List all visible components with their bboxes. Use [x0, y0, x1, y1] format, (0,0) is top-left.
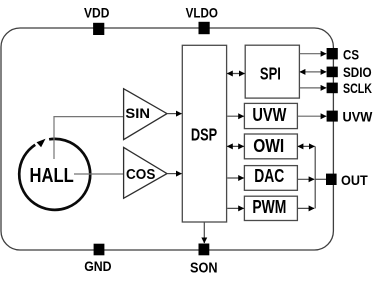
block PWM — [244, 196, 297, 220]
svg-text:SPI: SPI — [260, 64, 281, 84]
pin CS — [327, 48, 338, 59]
pin UVW — [327, 111, 338, 122]
block DAC — [244, 166, 297, 191]
bus vertical wire — [314, 146, 316, 208]
block UVW — [244, 103, 297, 128]
wire DSP-UVW — [227, 115, 244, 117]
pin OUT — [326, 174, 337, 185]
svg-text:VLDO: VLDO — [186, 5, 218, 21]
svg-text:OWI: OWI — [253, 136, 284, 156]
wire DSP to SON pin — [203, 222, 205, 243]
svg-text:SDIO: SDIO — [343, 64, 372, 80]
wire DSP-OWI (bidirectional) — [227, 145, 244, 147]
pin VLDO — [199, 22, 210, 34]
svg-text:SCLK: SCLK — [343, 80, 372, 96]
block SPI — [245, 45, 299, 98]
pin SON — [199, 244, 210, 256]
svg-text:PWM: PWM — [252, 197, 286, 217]
block DSP — [182, 45, 226, 222]
svg-text:HALL: HALL — [30, 164, 74, 187]
wire bus to OUT pin — [315, 178, 327, 180]
wire DAC to bus — [298, 178, 314, 180]
svg-text:DAC: DAC — [254, 166, 284, 186]
wire DSP-SPI (bidirectional) — [227, 73, 244, 75]
wire OWI to bus (bidirectional) — [298, 145, 315, 147]
HALL sensor circle — [19, 139, 90, 210]
svg-text:CS: CS — [343, 46, 359, 62]
wire SPI-SDIO (bidirectional) — [300, 71, 326, 73]
svg-text:DSP: DSP — [191, 124, 218, 144]
wire HALL to COS — [74, 173, 123, 175]
wire HALL to SIN (vertical drop) — [54, 117, 123, 159]
svg-text:OUT: OUT — [341, 172, 368, 188]
svg-text:VDD: VDD — [84, 5, 109, 21]
wire SPI-SCLK — [300, 87, 326, 89]
HALL rotation arrowhead — [37, 139, 46, 148]
pin GND — [94, 244, 105, 256]
amplifier SIN — [124, 89, 167, 140]
svg-text:COS: COS — [126, 167, 156, 183]
svg-text:SIN: SIN — [125, 105, 150, 121]
svg-text:UVW: UVW — [252, 105, 286, 125]
pin SCLK — [327, 83, 338, 94]
IC outline (rounded rect border) — [1, 28, 333, 250]
svg-text:SON: SON — [190, 261, 218, 277]
wire SPI-CS — [300, 53, 326, 55]
wire DSP-DAC — [227, 177, 244, 179]
pin SDIO — [327, 67, 338, 78]
wire DSP-PWM — [227, 207, 244, 209]
pin VDD — [93, 23, 104, 35]
wire SIN to DSP — [168, 113, 182, 115]
svg-text:GND: GND — [84, 258, 111, 274]
wire UVW block to UVW pin — [298, 115, 326, 117]
amplifier COS — [124, 147, 167, 198]
wire COS to DSP — [168, 173, 182, 175]
svg-text:UVW: UVW — [343, 108, 374, 124]
block OWI — [244, 134, 297, 159]
wire PWM to bus — [298, 207, 314, 209]
